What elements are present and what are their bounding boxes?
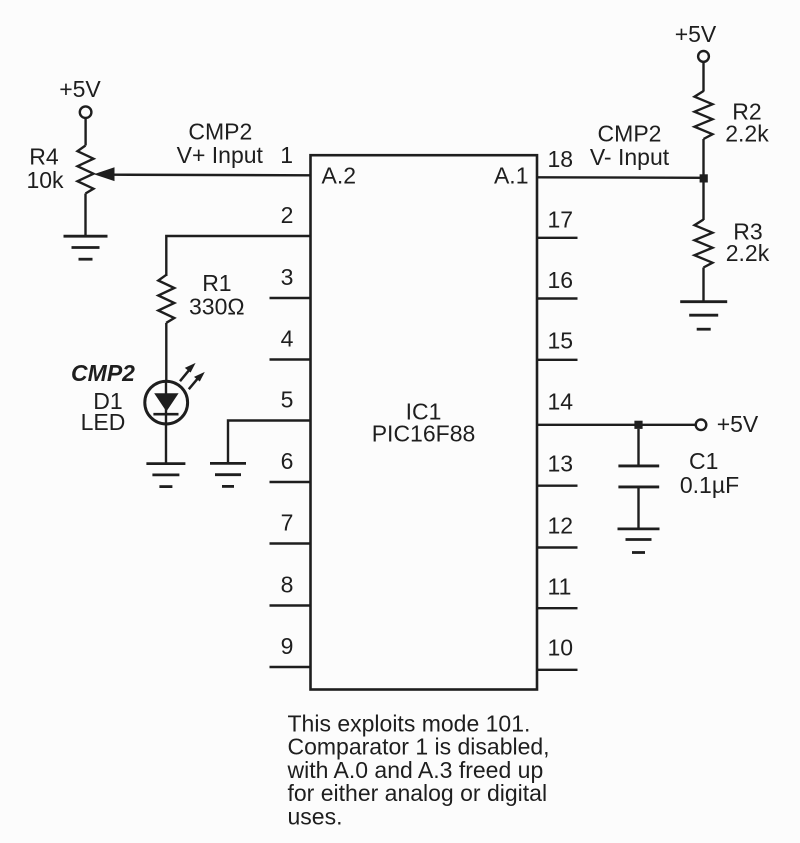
- pin 4 stub: [270, 358, 312, 360]
- label CMP2 (LED): [71, 360, 135, 386]
- pin number 4: [281, 326, 294, 352]
- pin 13 stub: [537, 485, 578, 487]
- wiper arrowhead: [94, 167, 115, 181]
- svg-text:A.2: A.2: [322, 163, 357, 189]
- power +5V terminal (pin 14): [696, 420, 707, 431]
- svg-text:+5V: +5V: [717, 411, 759, 437]
- wire pin 2 to R1: [166, 236, 311, 276]
- wire +5V to R4: [84, 118, 86, 146]
- wire R3 to ground: [702, 268, 704, 303]
- svg-text:18: 18: [548, 146, 574, 172]
- resistor R3: [695, 220, 713, 268]
- caption text: [287, 711, 550, 830]
- label R4: [29, 144, 59, 170]
- svg-text:9: 9: [281, 633, 294, 659]
- svg-text:10: 10: [548, 634, 574, 660]
- svg-text:17: 17: [548, 206, 574, 232]
- svg-text:2: 2: [281, 202, 294, 228]
- LED cathode wire to ground: [165, 382, 167, 464]
- pin number 15: [548, 328, 574, 354]
- power +5V (R2 top): [675, 21, 717, 62]
- label R2: [732, 99, 761, 125]
- svg-text:+5V: +5V: [675, 21, 717, 47]
- value PIC16F88: [372, 421, 476, 447]
- svg-text:R4: R4: [29, 144, 59, 170]
- pin number 13: [548, 450, 574, 476]
- pin name A.2: [322, 163, 357, 189]
- svg-text:with A.0 and A.3 freed up: with A.0 and A.3 freed up: [287, 757, 544, 783]
- pin 12 stub: [537, 546, 578, 548]
- svg-text:5: 5: [281, 387, 294, 413]
- LED triangle: [154, 393, 178, 411]
- svg-text:for either analog or digital: for either analog or digital: [288, 780, 548, 806]
- pin 7 stub: [270, 542, 312, 544]
- svg-text:+5V: +5V: [59, 76, 101, 102]
- pin number 11: [548, 574, 572, 600]
- svg-text:CMP2: CMP2: [188, 118, 252, 144]
- value 2.2k (R2): [725, 121, 769, 147]
- wire junction to R3: [702, 182, 704, 220]
- svg-text:2.2k: 2.2k: [726, 240, 770, 266]
- ground (LED): [146, 464, 185, 487]
- label C1: [689, 448, 718, 474]
- svg-text:11: 11: [548, 574, 572, 600]
- label CMP2 (V+ net): [188, 118, 252, 144]
- svg-text:3: 3: [281, 264, 294, 290]
- value 10k: [26, 167, 64, 193]
- LED light arrow 2: [189, 372, 205, 389]
- svg-text:V+ Input: V+ Input: [177, 142, 264, 168]
- svg-text:14: 14: [548, 388, 574, 414]
- pin number 8: [281, 572, 294, 598]
- pin number 18: [548, 146, 574, 172]
- pin number 12: [548, 512, 574, 538]
- value 0.1&#181;F: [680, 472, 739, 498]
- svg-text:330Ω: 330Ω: [189, 294, 245, 320]
- svg-text:PIC16F88: PIC16F88: [372, 421, 476, 447]
- junction node (divider): [700, 174, 708, 182]
- label V+ Input: [177, 142, 264, 168]
- svg-text:R1: R1: [202, 270, 231, 296]
- label V- Input: [590, 144, 670, 170]
- value 2.2k (R3): [726, 240, 770, 266]
- capacitor C1 plates: [618, 466, 659, 487]
- svg-text:15: 15: [548, 328, 574, 354]
- label IC1: [406, 399, 442, 425]
- pin 9 stub: [270, 666, 312, 668]
- wire R1 to LED: [165, 323, 167, 382]
- label LED: [81, 409, 126, 435]
- pin number 17: [548, 206, 574, 232]
- svg-text:2.2k: 2.2k: [725, 121, 769, 147]
- svg-text:V- Input: V- Input: [590, 144, 670, 170]
- wire pin 14 to +5V: [537, 424, 696, 426]
- LED cathode bar: [153, 413, 178, 416]
- pin number 9: [281, 633, 294, 659]
- resistor R1: [158, 275, 174, 323]
- svg-text:uses.: uses.: [288, 803, 343, 829]
- pin number 2: [281, 202, 294, 228]
- wiper arrow wire (pin 1 net): [112, 173, 312, 176]
- wire R4 to ground: [84, 194, 86, 238]
- wire pin 18 to divider: [537, 176, 704, 179]
- pin 3 stub: [270, 297, 312, 299]
- pin 6 stub: [270, 481, 312, 483]
- value 330&#937;: [189, 294, 245, 320]
- label D1: [93, 388, 122, 414]
- pin number 7: [281, 510, 294, 536]
- pin 17 stub: [537, 237, 578, 239]
- svg-text:CMP2: CMP2: [71, 360, 135, 386]
- pin name A.1: [494, 163, 529, 189]
- pin 16 stub: [537, 297, 578, 299]
- wire junction to C1: [637, 429, 639, 466]
- pin 11 stub: [537, 607, 578, 609]
- svg-text:10k: 10k: [26, 167, 64, 193]
- svg-text:6: 6: [281, 448, 294, 474]
- svg-text:16: 16: [548, 267, 574, 293]
- label CMP2 (V- net): [598, 121, 662, 147]
- power +5V (R4 top): [59, 76, 101, 118]
- svg-text:CMP2: CMP2: [598, 121, 662, 147]
- ground (R4): [64, 236, 108, 259]
- label +5V (pin 14): [717, 411, 759, 437]
- svg-text:Comparator 1 is disabled,: Comparator 1 is disabled,: [288, 734, 550, 760]
- LED D1 circle: [145, 381, 188, 424]
- ground (R3): [680, 302, 727, 330]
- svg-text:8: 8: [281, 572, 294, 598]
- svg-text:12: 12: [548, 512, 574, 538]
- ground (pin 5): [210, 463, 246, 486]
- pin 15 stub: [537, 359, 578, 361]
- pin number 1: [280, 142, 293, 168]
- svg-text:C1: C1: [689, 448, 718, 474]
- wire pin 5 to ground: [228, 421, 311, 465]
- wire +5V to R2: [702, 62, 704, 92]
- junction node (C1): [634, 421, 642, 429]
- pin number 6: [281, 448, 294, 474]
- svg-text:This exploits mode 101.: This exploits mode 101.: [288, 711, 531, 737]
- LED light arrow 1: [180, 363, 196, 381]
- pin number 3: [281, 264, 294, 290]
- svg-text:13: 13: [548, 450, 574, 476]
- pin number 16: [548, 267, 574, 293]
- svg-text:4: 4: [281, 326, 294, 352]
- svg-text:LED: LED: [81, 409, 126, 435]
- resistor R2: [695, 91, 713, 139]
- IC U1 body (IC1 PIC16F88): [311, 155, 538, 689]
- pin number 10: [548, 634, 574, 660]
- pin number 5: [281, 387, 294, 413]
- label R3: [733, 219, 762, 245]
- pin 10 stub: [537, 669, 578, 671]
- svg-text:A.1: A.1: [494, 163, 529, 189]
- pin number 14: [548, 388, 574, 414]
- svg-text:7: 7: [281, 510, 294, 536]
- label R1: [202, 270, 231, 296]
- ground (C1): [618, 529, 660, 553]
- pin 8 stub: [270, 604, 312, 606]
- wire R2 to junction: [702, 139, 704, 178]
- wire C1 to ground: [637, 487, 639, 530]
- resistor R4 (10k pot): [78, 146, 94, 194]
- svg-text:0.1µF: 0.1µF: [680, 472, 739, 498]
- svg-text:1: 1: [280, 142, 293, 168]
